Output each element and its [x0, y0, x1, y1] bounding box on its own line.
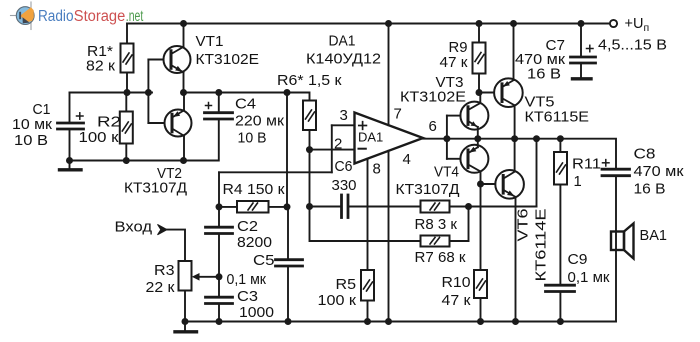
junction rail x560.4	[557, 318, 564, 325]
svg-text:2: 2	[334, 136, 342, 153]
label R4 150k	[223, 182, 286, 198]
pin label 4	[403, 151, 411, 168]
label VT2 KT3107D	[124, 166, 187, 197]
label R1* 82k	[86, 44, 116, 75]
svg-text:16 В: 16 В	[634, 182, 666, 198]
svg-text:6: 6	[429, 118, 437, 135]
logo RadioStorage	[11, 2, 35, 30]
bottom ground rail	[185, 321, 616, 323]
label DA1 K140UD12	[306, 34, 381, 68]
label C1 10mk 10V	[12, 102, 53, 149]
svg-text:C8: C8	[634, 147, 656, 163]
svg-text:R4 150 к: R4 150 к	[223, 182, 286, 198]
svg-text:КТ3102Е: КТ3102Е	[400, 90, 466, 106]
pin label 3	[340, 107, 348, 124]
pin label 2	[334, 136, 342, 153]
junction x183.5 y160.5	[180, 157, 187, 164]
pin label 8	[373, 161, 381, 178]
op-amp DA1	[219, 24, 447, 322]
svg-text:C1: C1	[33, 102, 51, 118]
svg-text:10 В: 10 В	[14, 133, 48, 149]
plus mark C4	[206, 103, 212, 109]
svg-text:К140УД12: К140УД12	[306, 52, 381, 68]
svg-text:+Uп: +Uп	[625, 16, 650, 34]
svg-text:Radio: Radio	[38, 8, 74, 25]
label BA1	[640, 228, 668, 244]
label R5 100k	[318, 277, 357, 309]
wire bias node y92.5 left segment	[70, 92, 153, 94]
svg-text:BA1: BA1	[640, 228, 668, 244]
svg-text:R8 3 к: R8 3 к	[415, 217, 458, 233]
svg-text:КТ3107Д: КТ3107Д	[396, 182, 460, 198]
svg-text:C6: C6	[335, 159, 353, 175]
junction x514.6	[511, 135, 518, 142]
wire emitter node y92.5 right segment	[184, 93, 310, 101]
svg-text:4,5...15 В: 4,5...15 В	[598, 38, 667, 54]
capacitor C7	[571, 24, 596, 79]
logo text	[38, 8, 144, 25]
svg-text:DA1: DA1	[358, 130, 383, 145]
op-amp plus mark	[359, 122, 367, 130]
resistor R6	[303, 101, 316, 151]
junction top rail x479	[476, 20, 483, 27]
junction x127 y92.5	[124, 89, 131, 96]
junction x536.5	[533, 135, 540, 142]
junction x148.4 y92.5	[145, 89, 152, 96]
junction top rail x581	[578, 20, 585, 27]
resistor R1	[121, 24, 134, 93]
junction R6/pin2	[306, 146, 313, 153]
junction VT4 collector node	[477, 181, 484, 188]
svg-text:КТ3107Д: КТ3107Д	[124, 181, 187, 197]
svg-text:1: 1	[574, 174, 582, 190]
label R9 47k	[440, 40, 469, 71]
svg-text:22 к: 22 к	[146, 280, 176, 296]
svg-text:10 В: 10 В	[238, 131, 267, 147]
svg-text:C9: C9	[568, 252, 588, 268]
label C8 470mk 16V	[634, 147, 685, 198]
resistor R5	[361, 270, 374, 322]
junction x69.5 y160.5	[66, 157, 73, 164]
label C2 8200	[237, 219, 272, 251]
junction x560.4	[557, 135, 564, 142]
svg-text:R10: R10	[442, 275, 471, 291]
resistor R8	[421, 139, 537, 213]
output node wire y139	[447, 139, 616, 167]
label R2 100k	[79, 115, 122, 147]
potentiometer R3	[179, 261, 220, 322]
svg-text:R2: R2	[97, 115, 121, 131]
svg-text:470 мк: 470 мк	[634, 164, 685, 180]
label VT4 KT3107D	[396, 165, 460, 199]
svg-text:100 к: 100 к	[79, 130, 120, 146]
svg-text:8: 8	[373, 161, 381, 178]
op-amp minus mark	[359, 148, 366, 150]
svg-text:C5: C5	[253, 253, 275, 269]
capacitor C4	[205, 93, 233, 120]
svg-text:Storage: Storage	[74, 8, 126, 25]
svg-text:C2: C2	[237, 219, 258, 235]
label C4 220mk 10V	[235, 97, 285, 147]
svg-text:R7 68 к: R7 68 к	[415, 250, 467, 266]
resistor R7	[421, 207, 469, 247]
junction R9 bottom	[476, 89, 483, 96]
capacitor C6	[310, 195, 421, 218]
svg-text:VT5: VT5	[525, 95, 555, 111]
junction rail x515.5	[512, 318, 519, 325]
label C5 0,1mk	[227, 253, 275, 288]
pin label 7	[394, 106, 402, 123]
resistor R10	[474, 184, 487, 322]
label VT1 KT3102E	[196, 34, 260, 68]
ground at C1	[60, 161, 82, 170]
svg-text:100 к: 100 к	[318, 293, 357, 309]
transistor VT6	[481, 139, 524, 322]
junction x309.5 y206.5	[306, 203, 313, 210]
capacitor C3	[206, 277, 233, 322]
junction rail x367.5	[364, 318, 371, 325]
wire emitter feed x287	[286, 93, 288, 207]
label R3 22k	[146, 263, 176, 296]
junction rail x288	[285, 318, 292, 325]
label C9 0,1mk	[568, 252, 611, 286]
plus mark C7	[587, 45, 594, 51]
svg-text:47 к: 47 к	[442, 293, 472, 309]
junction x446.9	[443, 135, 450, 142]
svg-text:VT4: VT4	[434, 165, 459, 181]
label 4,5...15 V	[598, 38, 667, 54]
capacitor C2	[206, 207, 233, 277]
svg-text:Вход: Вход	[115, 220, 153, 236]
label +Up	[625, 16, 650, 34]
label R10 47k	[442, 275, 472, 309]
wire ground bus y160.5	[70, 120, 219, 160]
svg-text:КТ3102Е: КТ3102Е	[196, 52, 260, 68]
svg-text:220 мк: 220 мк	[235, 114, 285, 130]
svg-text:1000: 1000	[239, 305, 274, 321]
svg-text:R3: R3	[154, 263, 175, 279]
input terminal arrow	[158, 224, 186, 261]
capacitor C8	[602, 169, 630, 321]
junction x287 y92.5	[284, 89, 291, 96]
transistor VT1	[148, 24, 190, 93]
transistor VT4	[447, 139, 489, 184]
resistor R9	[473, 24, 486, 93]
svg-text:3: 3	[340, 107, 348, 124]
svg-text:7: 7	[394, 106, 402, 123]
svg-text:C4: C4	[235, 97, 256, 113]
svg-text:R6* 1,5 к: R6* 1,5 к	[277, 73, 342, 89]
label R11 1	[572, 157, 601, 191]
transistor VT5	[479, 24, 523, 139]
svg-text:VT6: VT6	[516, 209, 532, 242]
capacitor C5	[276, 207, 303, 322]
junction x219 y206.9	[216, 203, 223, 210]
svg-text:R11: R11	[572, 157, 601, 173]
label VT6 KT6114E rotated	[516, 208, 550, 281]
label VT3 KT3102E	[400, 75, 466, 106]
junction x287 y206.9	[284, 203, 291, 210]
resistor R4	[237, 201, 269, 213]
junction rail x185	[182, 318, 189, 325]
wire inverting branch x309.5	[310, 150, 421, 241]
junction top rail x513.5	[510, 20, 517, 27]
label C3 1000	[237, 289, 274, 321]
svg-text:82 к: 82 к	[86, 59, 116, 75]
label C6 330	[332, 159, 357, 194]
label DA1 inside	[358, 130, 383, 145]
svg-text:0,1 мк: 0,1 мк	[227, 272, 267, 288]
label R8 3k	[415, 217, 458, 233]
junction rail x219	[216, 318, 223, 325]
svg-text:10 мк: 10 мк	[12, 117, 53, 133]
junction top rail x183.5	[180, 20, 187, 27]
junction x477.8	[474, 135, 481, 142]
svg-text:КТ6115Е: КТ6115Е	[525, 110, 590, 126]
label Vhod	[115, 220, 153, 236]
ground at rail left	[175, 322, 197, 332]
svg-text:R5: R5	[336, 277, 357, 293]
svg-text:4: 4	[403, 151, 411, 168]
transistor VT2	[148, 93, 191, 161]
resistor R2	[120, 93, 133, 161]
resistor R11	[554, 139, 567, 284]
plus mark C1	[77, 113, 84, 119]
wire input network y206.5	[219, 206, 287, 208]
junction top rail x388.5	[385, 20, 392, 27]
pin label 6	[429, 118, 437, 135]
svg-text:8200: 8200	[237, 235, 272, 251]
svg-text:16 В: 16 В	[527, 67, 561, 83]
junction x126.3 y160.5	[123, 157, 130, 164]
label VT5 KT6115E	[525, 95, 590, 126]
junction x218.8 y92.5	[215, 89, 222, 96]
svg-text:R9: R9	[449, 40, 468, 56]
+Up terminal	[610, 20, 617, 27]
label R6* 1,5k	[277, 73, 342, 89]
junction rail x480.5	[477, 318, 484, 325]
junction rail x388.5	[385, 318, 392, 325]
svg-text:47 к: 47 к	[440, 55, 469, 71]
svg-text:C3: C3	[237, 289, 258, 305]
junction R3 wiper	[216, 273, 223, 280]
svg-text:.net: .net	[126, 8, 144, 25]
svg-text:330: 330	[332, 178, 357, 194]
capacitor C9	[546, 285, 575, 321]
junction R7/R8 right	[465, 203, 472, 210]
transistor VT3	[447, 93, 489, 139]
svg-text:КТ6114Е: КТ6114Е	[534, 208, 550, 281]
junction x183.5 y92.5	[180, 89, 187, 96]
speaker BA1	[611, 224, 634, 259]
svg-text:0,1 мк: 0,1 мк	[568, 270, 611, 286]
label R7 68k	[415, 250, 467, 266]
label C7 470mk 16V	[515, 38, 566, 83]
svg-text:VT1: VT1	[196, 34, 224, 50]
svg-text:DA1: DA1	[329, 34, 356, 50]
capacitor C1	[58, 93, 84, 161]
plus mark C8	[603, 160, 610, 166]
top power rail	[127, 23, 610, 25]
